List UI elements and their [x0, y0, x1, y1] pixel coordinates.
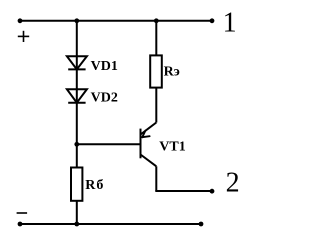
wire left branch (top rail to Rb) — [76, 21, 78, 168]
wire collector vertical — [155, 166, 157, 191]
node junction left branch / bottom rail — [74, 222, 79, 227]
wire top rail — [20, 20, 212, 22]
diode VD2 — [67, 89, 87, 103]
svg-text:VD1: VD1 — [91, 59, 118, 74]
resistor Rb — [71, 168, 82, 201]
wire base horizontal — [77, 143, 141, 145]
svg-text:2: 2 — [226, 168, 240, 199]
transistor VT1 — [141, 123, 157, 167]
wire bottom rail — [20, 223, 201, 225]
svg-text:VT1: VT1 — [159, 140, 185, 155]
svg-text:VD2: VD2 — [91, 90, 118, 105]
resistor Re — [150, 55, 162, 87]
wire left branch lower — [76, 201, 78, 224]
node bottom-right terminal — [199, 222, 204, 227]
wire emitter vertical — [155, 88, 157, 123]
svg-text:Rб: Rб — [85, 178, 104, 193]
node top-left terminal — [18, 18, 23, 23]
label plus polarity — [18, 31, 29, 42]
svg-text:Rэ: Rэ — [164, 65, 180, 80]
wire collector horizontal to terminal 2 — [155, 190, 212, 192]
node terminal 1 — [210, 18, 215, 23]
node base junction — [74, 142, 79, 147]
diode VD1 — [67, 56, 87, 69]
node bottom-left terminal — [18, 222, 23, 227]
svg-text:1: 1 — [223, 7, 237, 38]
node junction right branch / top rail — [154, 18, 159, 23]
node terminal 2 — [210, 189, 215, 194]
node junction left branch / top rail — [74, 18, 79, 23]
wire right branch upper — [155, 21, 157, 56]
transistor VT1 emitter arrow — [142, 131, 149, 138]
label minus polarity — [17, 212, 28, 214]
